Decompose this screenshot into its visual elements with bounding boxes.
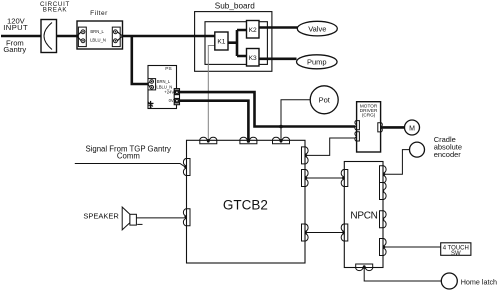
wire +24V to motor driver (180, 92, 355, 126)
svg-text:NPCN: NPCN (350, 211, 377, 222)
svg-text:SPEAKER: SPEAKER (83, 212, 119, 221)
label Signal From TGP Gantry Comm (85, 145, 171, 161)
svg-text:INPUT: INPUT (3, 23, 28, 32)
wire NPCN to home latch (364, 268, 441, 282)
Valve ellipse (297, 21, 337, 36)
NPCN right tab 2 (380, 183, 387, 200)
svg-text:LBLU_N: LBLU_N (90, 37, 106, 42)
Pump ellipse (297, 55, 338, 69)
wire filter to K1 (123, 35, 215, 38)
wire NPCN to 4 touch sw (384, 246, 441, 248)
cradle absolute encoder circle (410, 142, 425, 157)
svg-text:0V: 0V (169, 98, 174, 103)
svg-text:K1: K1 (217, 39, 225, 46)
NPCN left tab 1 (341, 170, 348, 187)
power supply PS box (148, 66, 177, 109)
relay K2 (247, 21, 260, 39)
GTCB2 box (187, 140, 306, 263)
label 120V INPUT (3, 16, 28, 31)
motor driver box (357, 102, 381, 152)
filter left pin block (77, 27, 86, 46)
motor driver left pin 1 (355, 121, 359, 130)
svg-text:K2: K2 (249, 27, 257, 34)
GTCB2 right connector 3 (302, 224, 309, 241)
svg-text:Home latch: Home latch (461, 277, 497, 286)
relay K1 (215, 32, 228, 50)
wire K2 to Valve (259, 26, 298, 29)
wire Pot to junction and GTCB2 (281, 100, 310, 140)
svg-text:Filter: Filter (90, 10, 108, 17)
NPCN right tab 3 (380, 211, 387, 228)
filter right pin block (112, 27, 122, 46)
PS right pin block (174, 89, 179, 105)
wire GTCB2 to motor driver (306, 138, 355, 155)
wire speaker to GTCB2 (136, 217, 184, 219)
wire 120V input to circuit breaker (1, 35, 42, 38)
wire signal to GTCB2 (75, 164, 185, 167)
svg-text:encoder: encoder (434, 150, 462, 159)
svg-text:M: M (409, 125, 415, 132)
GTCB2 left connector 1 (183, 159, 190, 176)
circuit breaker box (41, 20, 57, 53)
svg-text:+24V: +24V (164, 89, 174, 94)
wire K1 gray to GTCB2 (208, 46, 215, 140)
motor M circle (405, 120, 420, 135)
wire GTCB2 to NPCN 2 (306, 232, 343, 234)
svg-text:Pump: Pump (307, 58, 327, 67)
junction dot (279, 125, 283, 129)
GTCB2 right connector 1 (302, 147, 309, 164)
wire GTCB2 to NPCN 1 (306, 177, 343, 179)
svg-text:BREAK: BREAK (43, 6, 68, 13)
home latch circle (441, 273, 457, 289)
sub board outer box (195, 12, 272, 72)
svg-text:Gantry: Gantry (3, 45, 26, 54)
speaker icon (122, 207, 142, 230)
NPCN bottom tab (356, 264, 373, 271)
label Cradle absolute encoder (434, 135, 462, 159)
svg-text:BRN_L: BRN_L (157, 79, 171, 84)
svg-text:Pot: Pot (319, 96, 331, 105)
svg-text:SW: SW (451, 251, 461, 257)
GTCB2 top connector 3 (273, 137, 290, 144)
Pot circle (310, 86, 338, 114)
ground symbol PS (148, 101, 154, 108)
wire 0V to GTCB2 (180, 101, 249, 140)
wire K1 to K2 K3 (228, 30, 247, 56)
svg-text:PS: PS (165, 66, 171, 72)
NPCN right tab 1 (380, 166, 387, 183)
wire K3 to Pump (259, 57, 297, 60)
svg-text:Sub_board: Sub_board (215, 1, 256, 10)
label CIRCUIT BREAK (40, 1, 70, 14)
GTCB2 left connector 2 (183, 209, 190, 226)
PS left pin block (148, 79, 156, 90)
svg-text:Comm: Comm (117, 152, 140, 161)
GTCB2 top connector 2 (240, 137, 257, 144)
4 TOUCH SW box (441, 243, 471, 257)
NPCN box (344, 162, 383, 268)
wire circuit breaker to filter (57, 35, 78, 38)
relay K3 (247, 49, 260, 67)
svg-text:Valve: Valve (308, 25, 326, 34)
GTCB2 top connector 1 (200, 137, 217, 144)
circuit breaker arc (44, 23, 52, 50)
filter box (77, 21, 123, 49)
wire motor driver to M (382, 126, 405, 129)
NPCN left tab 2 (341, 224, 348, 241)
wire junction down to PS (132, 36, 148, 84)
svg-text:BRN_L: BRN_L (90, 29, 104, 34)
label MOTOR DRIVER (CRG) (360, 103, 378, 117)
NPCN right tab 4 (380, 239, 387, 256)
svg-text:GTCB2: GTCB2 (223, 197, 268, 212)
label From Gantry (3, 38, 26, 54)
GTCB2 right connector 2 (302, 170, 309, 187)
sub board inner box (205, 22, 267, 65)
svg-text:K3: K3 (249, 55, 257, 62)
motor driver right pin (378, 123, 382, 132)
motor driver left pin 2 (355, 132, 359, 141)
svg-text:(CRG): (CRG) (362, 112, 376, 117)
wire encoder to NPCN (385, 150, 410, 175)
